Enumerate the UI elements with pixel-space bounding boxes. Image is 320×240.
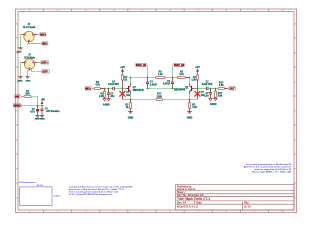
svg-text:BIAS_Q2: BIAS_Q2 <box>174 64 185 67</box>
svg-text:Date:: Date: <box>197 202 203 205</box>
wire J1 pin2 <box>37 34 39 36</box>
svg-text:4.7u: 4.7u <box>30 110 35 113</box>
svg-text:KiCad E.D.A. 6.0.11: KiCad E.D.A. 6.0.11 <box>177 205 199 208</box>
svg-text:22n: 22n <box>110 96 115 98</box>
svg-text:GND: GND <box>128 116 134 119</box>
svg-text:Id: 1/1: Id: 1/1 <box>244 206 251 208</box>
wire collector row <box>131 77 156 79</box>
svg-text:Jacob A. Gersh: Jacob A. Gersh <box>177 188 196 191</box>
svg-text:120R: 120R <box>156 96 162 98</box>
resistor R12 feed <box>24 91 31 97</box>
svg-text:1.5k: 1.5k <box>219 85 224 87</box>
connector J2 XLR male <box>22 54 38 71</box>
svg-text:GND: GND <box>26 81 31 83</box>
svg-text:4.7k: 4.7k <box>95 84 100 87</box>
wire C2 to Q1 base <box>114 88 125 90</box>
svg-text:36.7x?: 36.7x? <box>37 185 44 187</box>
ground Q1 emitter <box>128 112 134 120</box>
global label OUT+ at J2 <box>40 61 49 65</box>
junction rail Q2 <box>189 99 191 101</box>
junction in A <box>104 88 106 90</box>
capacitor C9 electrolytic shunt <box>30 106 39 116</box>
wire input <box>93 88 95 90</box>
svg-text:2.2n: 2.2n <box>204 96 209 98</box>
junction rail Q1 <box>130 99 132 101</box>
resistor R6 load <box>191 75 198 89</box>
svg-text:OUT+: OUT+ <box>41 61 48 64</box>
resistor R11 out series <box>218 82 228 89</box>
DNP X mark 2 <box>194 91 200 96</box>
svg-text:AGND: AGND <box>103 104 110 107</box>
wire row1 to corner down <box>31 97 38 106</box>
svg-text:+9V Session: +9V Session <box>46 111 60 113</box>
junction out B <box>215 88 217 90</box>
global label VCC2 <box>173 63 185 67</box>
note top right <box>244 163 292 174</box>
capacitor C8 out shunt <box>204 89 212 99</box>
global label +9V feed row1 <box>15 95 22 99</box>
wire J2 pin2 <box>38 62 40 64</box>
capacitor C7 output series <box>202 82 213 91</box>
wire output node <box>208 88 218 90</box>
svg-text:3.3uF 50V: 3.3uF 50V <box>108 84 119 86</box>
ground feed B <box>40 115 45 120</box>
junction Q2 node <box>197 88 199 90</box>
resistor R7 rail 120R <box>156 94 162 101</box>
ground out shunt B <box>214 98 217 100</box>
svg-text:OUT: OUT <box>229 87 235 90</box>
svg-text:0.47uF: 0.47uF <box>150 83 158 86</box>
svg-text:Title: Mark Tenth CT-1: Title: Mark Tenth CT-1 <box>177 197 210 201</box>
ground out shunt A <box>209 98 212 100</box>
svg-text:GNDD: GNDD <box>14 104 21 107</box>
capacitor C2 series <box>108 82 119 91</box>
svg-text:MIC+: MIC+ <box>85 87 91 90</box>
pcb outline box <box>20 187 53 206</box>
svg-text:+9V: +9V <box>15 95 20 98</box>
wire J1 pin3 <box>29 43 41 45</box>
junction in B <box>108 88 110 90</box>
svg-text:GND: GND <box>18 81 23 83</box>
power +9V no2 <box>195 65 200 75</box>
svg-text:OUT-: OUT- <box>42 70 48 73</box>
global label VCC1 <box>136 63 148 67</box>
junction mid C4 <box>147 88 149 90</box>
global label OUT- at J2 <box>41 70 50 74</box>
wire VCC2 down <box>172 67 174 78</box>
capacitor C5 interstage <box>163 78 174 89</box>
emitter rail wire <box>123 99 198 101</box>
capacitor C6 DNP below node <box>198 89 206 100</box>
global label MIC- at J1 <box>41 42 48 46</box>
svg-text:GND: GND <box>17 52 22 54</box>
resistor R2 shunt <box>99 89 105 99</box>
junction overlay dots <box>37 77 217 107</box>
power +9V no3 <box>41 99 46 105</box>
title block <box>176 185 295 211</box>
junction row B <box>172 77 174 79</box>
svg-text:+9V: +9V <box>120 65 125 69</box>
wire J2 pin1 to ground <box>21 63 22 77</box>
svg-text:2N2314=B: 2N2314=B <box>174 89 185 92</box>
wire Q2 base to node <box>195 88 206 90</box>
ground GND J1 <box>17 48 23 54</box>
svg-text:+9V: +9V <box>41 99 46 101</box>
svg-text:AGND: AGND <box>210 103 217 106</box>
wire J2 pin3 to ground <box>28 71 30 77</box>
resistor R9 emitter Q2 <box>189 100 198 112</box>
ground GND J2 pin3 <box>25 77 31 83</box>
svg-text:GND: GND <box>187 116 193 119</box>
svg-text:3.3uF 50V: 3.3uF 50V <box>202 84 213 86</box>
svg-text:Revised git b/83451 + 78 + 900: Revised git b/83451 + 78 + 9008 + 448 <box>252 170 292 173</box>
transistor Q2 <box>174 83 195 94</box>
wire row2 <box>22 105 44 107</box>
resistor R5 row <box>178 72 190 79</box>
junction row Q2 <box>189 77 191 79</box>
resistor R3 bias <box>122 75 128 89</box>
wire VCC1 down <box>147 67 149 78</box>
wire Q1 emitter down <box>130 94 132 100</box>
global label MIC+ at J1 <box>39 33 47 37</box>
svg-text:2N5765=B: 2N5765=B <box>133 90 144 92</box>
DNP X mark 1 <box>119 91 125 96</box>
global label MIC+ input <box>85 87 93 91</box>
svg-text:MIC-: MIC- <box>42 42 47 45</box>
wire row mid <box>165 77 178 79</box>
ground Q2 emitter <box>187 112 193 120</box>
power +9V no1 <box>120 65 125 75</box>
svg-text:+9V: +9V <box>195 65 200 69</box>
svg-text:PCB dimensions: -: PCB dimensions: - <box>19 182 38 184</box>
svg-text:BIAS_Q1: BIAS_Q1 <box>136 64 147 67</box>
note pcb dimensions <box>19 182 61 197</box>
resistor R4 row <box>156 72 165 79</box>
svg-text:10u: 10u <box>126 95 131 97</box>
resistor R8 emitter Q1 <box>125 100 131 112</box>
capacitor C10 shunt <box>41 106 61 116</box>
svg-text:MIC+: MIC+ <box>40 33 46 36</box>
junction Q1 base node <box>122 88 124 90</box>
resistor R1 series input <box>94 82 104 90</box>
svg-text:1.5k: 1.5k <box>191 80 196 82</box>
capacitor C1 shunt <box>107 89 115 99</box>
svg-text:XLR Femal: XLR Femal <box>23 26 36 29</box>
wire Q2 emitter down <box>189 94 191 100</box>
wire J2 pin3b <box>32 68 41 72</box>
wire mid line <box>148 88 189 90</box>
wire J1 pin1 to ground <box>21 35 22 48</box>
junction row Q1 <box>130 77 132 79</box>
transistor Q1 <box>125 83 144 94</box>
svg-text:0.47uF: 0.47uF <box>163 83 171 86</box>
svg-text:1.2k: 1.2k <box>158 74 163 76</box>
ground input shunt B <box>107 99 110 101</box>
svg-text:GND: GND <box>40 119 45 121</box>
resistor R10 out shunt <box>215 89 223 99</box>
junction mid C5 <box>172 88 174 90</box>
svg-text:Sheet: /: Sheet: / <box>177 191 186 194</box>
capacitor C4 interstage <box>146 78 158 89</box>
global label OUT <box>228 87 236 91</box>
svg-text:5.6k: 5.6k <box>218 96 223 98</box>
svg-text:A. M + wiring BT LM27WT4u foot: A. M + wiring BT LM27WT4u footprint mm <box>69 193 112 196</box>
wire input node <box>105 88 113 90</box>
svg-text:Outline: Outline <box>54 194 62 197</box>
wire row1 left <box>22 96 25 98</box>
junction row A <box>147 77 149 79</box>
svg-text:Size: A4: Size: A4 <box>177 202 187 205</box>
global label GND feed row2 <box>13 104 22 108</box>
svg-text:Rev:: Rev: <box>244 203 249 205</box>
wire Q1 collector up <box>130 78 132 84</box>
capacitor C3 DNP below node <box>123 89 131 100</box>
sheet frame <box>16 9 297 213</box>
ground input shunt A <box>103 99 106 101</box>
svg-text:1.5k: 1.5k <box>192 107 197 109</box>
svg-text:4.7k: 4.7k <box>179 73 184 76</box>
connector J1 XLR female <box>22 23 38 45</box>
ground feed A <box>35 115 40 120</box>
ground GND J2 shell <box>18 77 23 83</box>
wire Q2 collector up <box>189 78 191 84</box>
junction out A <box>210 88 212 90</box>
note paragraph <box>69 186 133 197</box>
